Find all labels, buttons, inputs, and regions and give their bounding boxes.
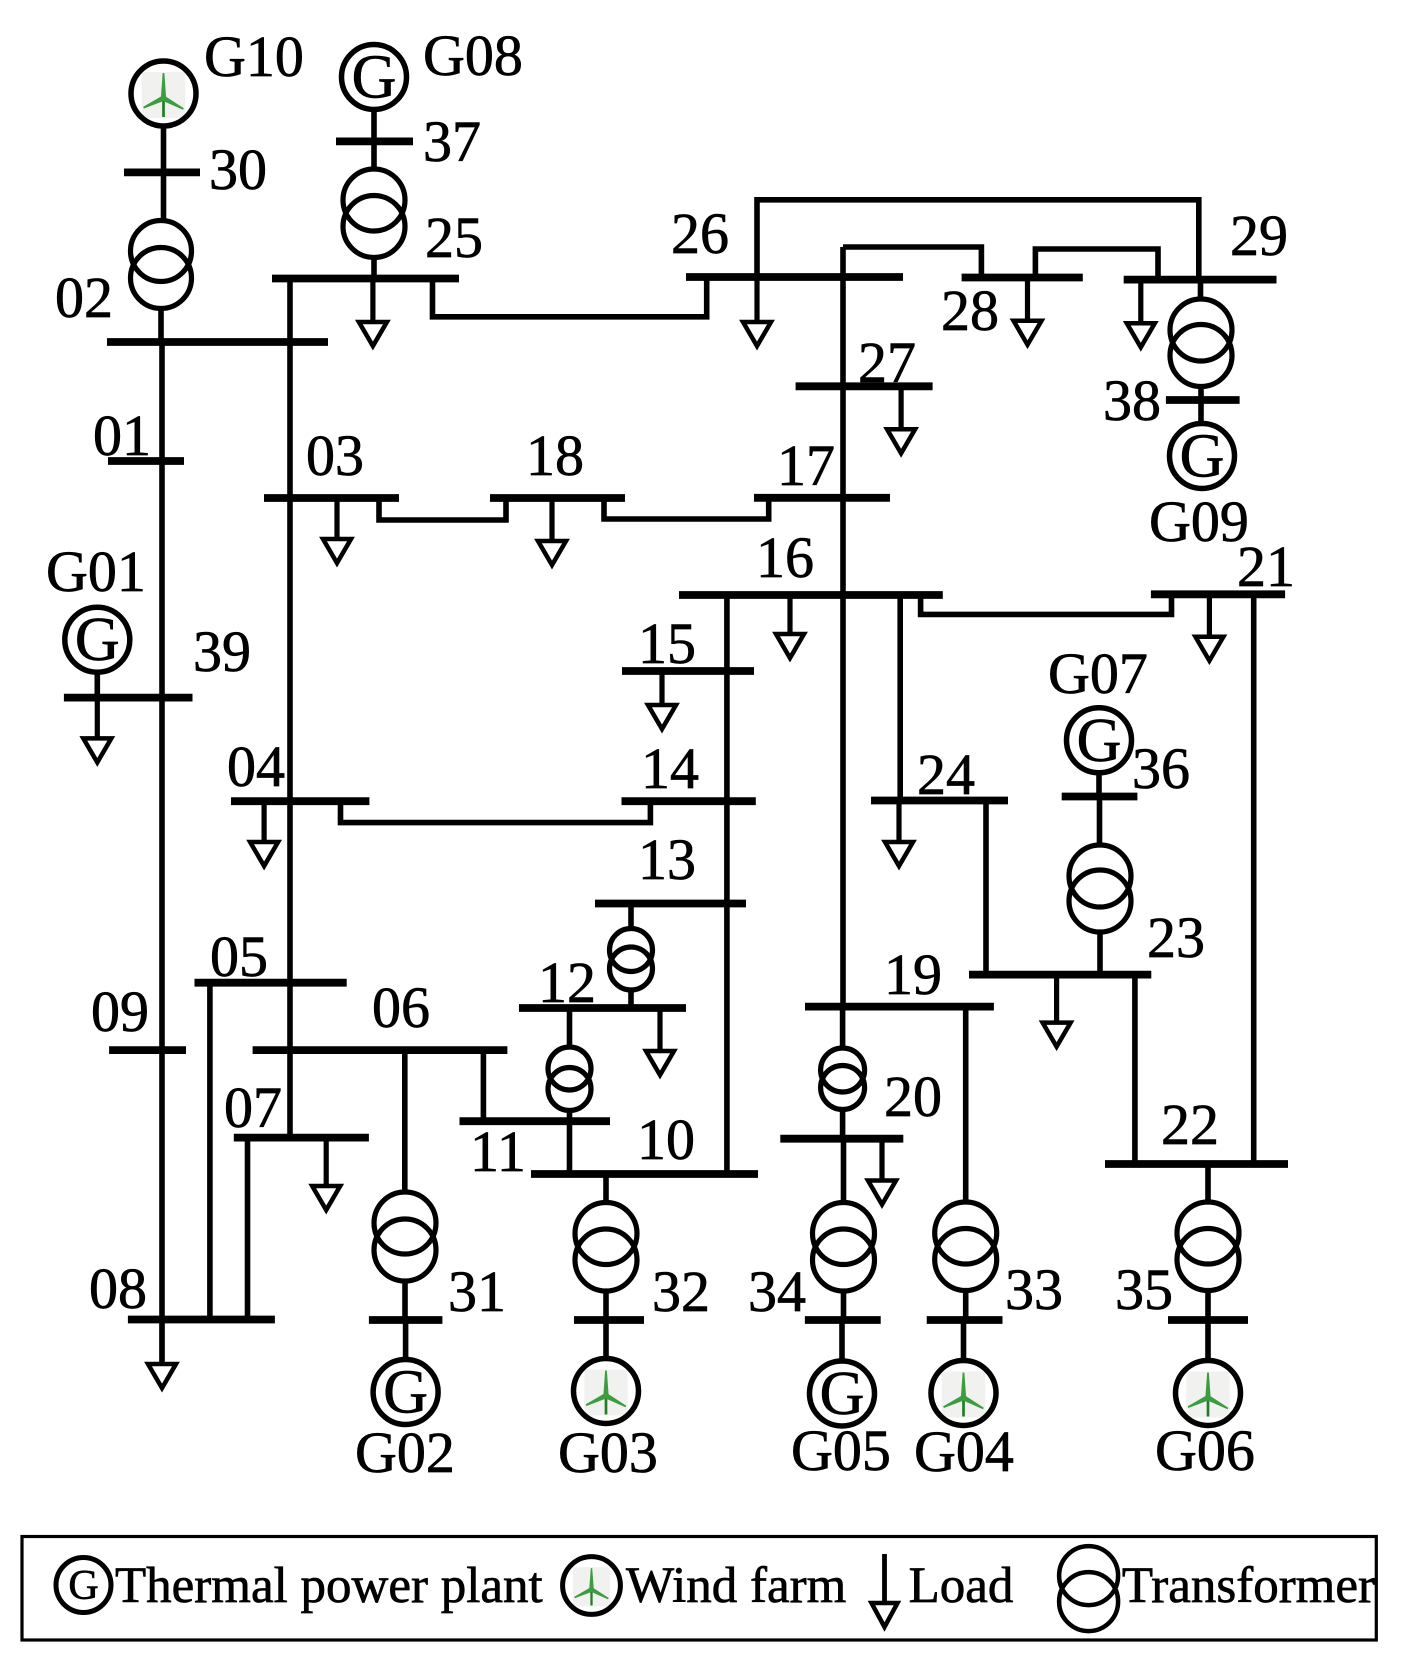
bus 22	[1105, 1160, 1288, 1168]
wire tie 25-26	[433, 277, 707, 317]
bus 21	[1151, 590, 1285, 598]
wire bus 38 to G09	[1198, 400, 1204, 424]
svg-text:31: 31	[448, 1259, 506, 1324]
wire 24 to 23	[983, 801, 989, 975]
svg-text:22: 22	[1161, 1092, 1219, 1157]
transformer 12-10	[548, 1047, 591, 1111]
svg-text:30: 30	[209, 137, 267, 202]
wire tie 28-29	[1035, 249, 1158, 280]
wire 23 to 22	[1132, 975, 1138, 1164]
wire G10 to transformer 30-02	[161, 126, 167, 222]
load on bus 20	[868, 1139, 896, 1205]
wire transformer 12-10 through bus 11 to bus 10	[567, 1108, 573, 1174]
wire 07 to 08	[245, 1138, 251, 1320]
wire 19 to transformer 19-33	[963, 1007, 969, 1204]
wire transformer 10-32 to bus 32	[603, 1289, 609, 1320]
svg-text:Thermal power plant: Thermal power plant	[115, 1558, 543, 1614]
svg-text:09: 09	[91, 979, 149, 1044]
wire bus 06 to transformer 06-31	[402, 1050, 408, 1194]
svg-text:G: G	[383, 1358, 428, 1426]
wire transformer 19-20 to bus 20	[840, 1107, 846, 1139]
bus 03	[264, 494, 399, 502]
svg-text:25: 25	[425, 205, 483, 270]
wire bus 20 to transformer 20-34	[841, 1139, 847, 1204]
svg-text:13: 13	[638, 827, 696, 892]
bus 26	[686, 273, 903, 281]
transformer 19-20	[821, 1048, 865, 1110]
legend load symbol	[872, 1554, 898, 1627]
svg-text:17: 17	[777, 433, 835, 498]
wire bus 33 to G04	[961, 1320, 967, 1362]
load on bus 39	[83, 698, 111, 763]
load on bus 15	[648, 671, 676, 729]
bus 24	[871, 797, 1008, 805]
svg-text:20: 20	[884, 1064, 942, 1129]
svg-text:23: 23	[1147, 905, 1205, 970]
svg-text:G: G	[1077, 707, 1122, 775]
generator G07 (thermal)	[1067, 707, 1132, 775]
svg-text:38: 38	[1103, 368, 1161, 433]
wire 16 to 24	[897, 595, 903, 801]
load on bus 26	[743, 277, 771, 346]
bus 35	[1168, 1316, 1248, 1324]
bus 11	[460, 1117, 611, 1125]
wire long vertical bus 02/01/39/09/08	[159, 342, 165, 1366]
bus 06	[253, 1046, 508, 1054]
svg-text:14: 14	[641, 736, 699, 801]
bus 02	[107, 338, 328, 346]
legend thermal power plant symbol	[56, 1558, 111, 1613]
bus 30	[124, 168, 200, 176]
bus 25	[272, 275, 459, 283]
wire transformer 30-02 to bus 02	[158, 307, 164, 344]
wire transformer 13-12 to bus 12	[628, 988, 634, 1008]
generator G09 (thermal)	[1170, 422, 1235, 490]
wire tie 26-28	[843, 247, 981, 278]
svg-text:G: G	[75, 606, 120, 674]
bus 09	[109, 1046, 186, 1054]
svg-text:34: 34	[748, 1259, 806, 1324]
load on bus 07	[312, 1138, 340, 1210]
bus 10	[531, 1170, 758, 1178]
svg-text:19: 19	[884, 942, 942, 1007]
load on bus 12	[646, 1008, 674, 1075]
transformer 19-33	[935, 1202, 997, 1291]
svg-text:G: G	[352, 43, 397, 111]
load on bus 18	[538, 498, 566, 565]
svg-text:29: 29	[1230, 203, 1288, 268]
svg-text:02: 02	[55, 265, 113, 330]
svg-text:Load: Load	[909, 1558, 1014, 1614]
wire 21 to 22	[1251, 594, 1257, 1164]
generator G05 (thermal)	[810, 1360, 875, 1428]
svg-text:39: 39	[193, 619, 251, 684]
svg-text:G06: G06	[1155, 1418, 1255, 1483]
svg-text:G01: G01	[46, 539, 146, 604]
svg-text:G08: G08	[423, 23, 523, 88]
wire bus 34 to G05	[839, 1320, 845, 1362]
wire long vertical 25-02-03-04-05-06-07	[287, 279, 293, 1138]
legend transformer symbol	[1059, 1546, 1118, 1631]
svg-text:16: 16	[756, 525, 814, 590]
svg-text:33: 33	[1005, 1257, 1063, 1322]
svg-text:G05: G05	[791, 1418, 891, 1483]
svg-text:03: 03	[306, 423, 364, 488]
transformer 10-32	[575, 1203, 637, 1292]
svg-text:G02: G02	[355, 1420, 455, 1485]
wire bus 10 to transformer 10-32	[603, 1174, 609, 1204]
load on bus 28	[1014, 278, 1042, 345]
svg-text:01: 01	[93, 403, 151, 468]
wire G01 to bus 39	[95, 671, 101, 699]
svg-text:18: 18	[526, 423, 584, 488]
generator G08 (thermal)	[342, 43, 407, 111]
svg-text:G: G	[68, 1563, 98, 1609]
wire bus 13 to transformer 13-12	[628, 904, 634, 931]
bus 04	[231, 797, 369, 805]
wire bus 31 to G02	[403, 1320, 409, 1361]
bus 23	[969, 971, 1151, 979]
svg-text:06: 06	[372, 975, 430, 1040]
load on bus 04	[250, 801, 278, 866]
svg-text:05: 05	[210, 924, 268, 989]
svg-text:G: G	[1180, 422, 1225, 490]
bus 27	[796, 382, 933, 390]
wire transformer 29-38 to bus 38	[1198, 384, 1204, 401]
load on bus 08	[148, 1320, 176, 1389]
svg-text:37: 37	[423, 109, 481, 174]
load on bus 24	[885, 801, 913, 867]
wire 06 to 11	[481, 1050, 487, 1121]
bus 29	[1124, 276, 1277, 284]
svg-text:12: 12	[538, 950, 596, 1015]
svg-text:08: 08	[89, 1256, 147, 1321]
generator G04 (wind farm)	[931, 1361, 996, 1426]
load on bus 25	[359, 279, 387, 347]
wire bus 22 to transformer 22-35	[1205, 1164, 1211, 1204]
svg-text:G07: G07	[1048, 641, 1148, 706]
load on bus 16	[776, 595, 804, 658]
wire transformer 06-31 to bus 31	[402, 1279, 408, 1320]
wire bus 29 to transformer 29-38	[1198, 280, 1204, 301]
bus 05	[195, 979, 347, 987]
bus 20	[780, 1135, 903, 1143]
svg-text:36: 36	[1132, 736, 1190, 801]
generator G02 (thermal)	[373, 1358, 438, 1426]
bus 12	[519, 1004, 686, 1012]
generator G06 (wind farm)	[1176, 1361, 1241, 1426]
svg-text:G10: G10	[204, 24, 304, 89]
bus 17	[754, 494, 890, 502]
svg-text:Wind farm: Wind farm	[626, 1558, 846, 1614]
bus 19	[805, 1003, 994, 1011]
generator G10 (wind farm)	[131, 61, 196, 126]
wire G07 to bus 36	[1096, 772, 1102, 798]
legend wind farm symbol	[563, 1557, 621, 1615]
svg-text:04: 04	[227, 734, 285, 799]
bus 31	[369, 1316, 443, 1324]
svg-text:26: 26	[671, 201, 729, 266]
wire 05 to 08	[207, 983, 213, 1320]
svg-text:11: 11	[470, 1119, 526, 1184]
wire tie 03-18	[379, 498, 506, 520]
wire tie 18-17	[604, 498, 769, 519]
svg-text:35: 35	[1115, 1257, 1173, 1322]
svg-text:27: 27	[858, 330, 916, 395]
load on bus 29	[1127, 280, 1155, 348]
wire tie 04-14	[341, 801, 651, 822]
svg-text:24: 24	[917, 742, 975, 807]
wire bus 35 to G06	[1205, 1320, 1211, 1362]
bus 32	[574, 1316, 644, 1324]
bus 01	[108, 457, 184, 465]
transformer 22-35	[1177, 1202, 1239, 1291]
wire tie 16-21	[921, 594, 1172, 614]
svg-text:G03: G03	[558, 1420, 658, 1485]
transformer 13-12	[610, 929, 653, 991]
svg-text:10: 10	[637, 1107, 695, 1172]
load on bus 23	[1043, 975, 1071, 1047]
bus 14	[622, 797, 756, 805]
transformer 20-34	[813, 1203, 875, 1292]
bus 34	[805, 1316, 881, 1324]
wire bus 12 to transformer 12-10	[567, 1008, 573, 1049]
transformer 30-02	[131, 221, 192, 309]
bus 37	[336, 137, 413, 145]
wire transformer 36-23 to bus 23	[1097, 930, 1103, 975]
svg-text:07: 07	[224, 1075, 282, 1140]
bus 08	[128, 1316, 275, 1324]
wire transformer 19-33 to bus 33	[963, 1289, 969, 1320]
svg-text:G09: G09	[1149, 489, 1249, 554]
svg-text:15: 15	[638, 611, 696, 676]
bus 18	[490, 494, 625, 502]
wire transformer 22-35 to bus 35	[1205, 1289, 1211, 1320]
bus 36	[1062, 793, 1138, 801]
load on bus 27	[887, 386, 915, 453]
wire G08 to transformer 37-25	[371, 109, 377, 171]
bus 28	[962, 274, 1083, 282]
svg-text:28: 28	[941, 278, 999, 343]
bus 39	[64, 694, 193, 702]
legend box	[22, 1537, 1376, 1641]
bus 15	[622, 667, 754, 675]
wire transformer 20-34 to bus 34	[841, 1289, 847, 1320]
svg-text:32: 32	[652, 1259, 710, 1324]
bus 13	[595, 900, 746, 908]
generator G03 (wind farm)	[574, 1359, 639, 1424]
wire bus 36 to transformer 36-23	[1097, 797, 1103, 848]
transformer 06-31	[374, 1192, 436, 1281]
bus 33	[927, 1316, 1003, 1324]
wire transformer 37-25 to bus 25	[371, 255, 377, 280]
wire long vertical 16-15-14-13-10	[724, 595, 730, 1174]
wire bus 19 to transformer 19-20	[840, 1007, 846, 1050]
transformer 29-38	[1170, 299, 1232, 387]
transformer 37-25	[343, 169, 405, 258]
svg-text:G04: G04	[914, 1419, 1014, 1484]
load on bus 03	[323, 498, 351, 563]
transformer 36-23	[1069, 845, 1131, 932]
wire long vertical 26-27-17-16-19	[840, 247, 846, 1007]
bus 16	[679, 591, 943, 599]
generator G01 (thermal)	[65, 606, 130, 674]
load on bus 21	[1195, 594, 1223, 660]
wire bus 32 to G03	[603, 1320, 609, 1360]
wire tie 26-29	[757, 200, 1199, 280]
bus 07	[234, 1134, 369, 1142]
bus 38	[1166, 396, 1240, 404]
svg-text:Transformer: Transformer	[1122, 1558, 1375, 1614]
